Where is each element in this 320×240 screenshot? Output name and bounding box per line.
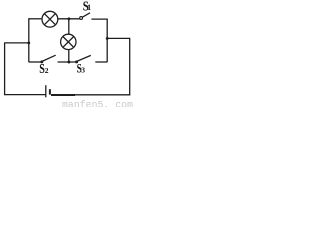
wire middle left (node to switch S2) (29, 61, 42, 63)
wire middle right (switch S3 to right vertical) (95, 61, 107, 63)
switch S1 contact circle (80, 17, 83, 20)
battery BT long thin plate (45, 85, 47, 97)
switch S3 blade (77, 55, 91, 61)
node junction dot (lamp L2 bottom tap) (67, 61, 70, 64)
wire lamp L2 lower stub (68, 50, 70, 63)
wire lamp L2 upper stub (68, 19, 70, 35)
wire left-outer vertical (4, 43, 6, 95)
node junction dot (right tap) (106, 37, 109, 40)
battery BT short thick plate (49, 89, 51, 94)
svg-text:manfen5. com: manfen5. com (62, 99, 133, 107)
svg-text:2: 2 (45, 66, 49, 75)
wire top-right horizontal (91, 18, 107, 20)
svg-text:1: 1 (87, 3, 91, 12)
wire right-inner vertical (106, 19, 108, 63)
wire middle center (switch S2 to switch S3) (58, 61, 77, 63)
wire bottom battery-right thick segment (51, 94, 75, 96)
lamp L2 (61, 34, 76, 49)
lamp L1 (42, 11, 58, 27)
switch S2 label (39, 61, 49, 76)
switch S2 pivot dot (40, 60, 43, 63)
wire left-inner vertical (28, 18, 30, 62)
wire left connector horizontal (4, 42, 29, 44)
wire bottom left (battery to corner) (4, 94, 46, 96)
switch S1 blade (82, 13, 90, 17)
svg-text:3: 3 (81, 66, 85, 75)
node junction dot (lamp L2 top tap) (67, 17, 70, 20)
node junction dot (left node) (27, 41, 30, 44)
switch S3 pivot dot (75, 60, 78, 63)
wire right-outer vertical (129, 38, 131, 95)
wire right branch horizontal (107, 37, 130, 39)
wire bottom right (corner to S3-side) (75, 94, 131, 96)
switch S2 blade (42, 55, 56, 61)
wire top-left horizontal (node to lamp L1) (29, 18, 42, 20)
switch S1 label (83, 0, 91, 15)
wire top middle (lamp L1 to switch S1) (58, 18, 80, 20)
switch S3 label (77, 61, 86, 76)
